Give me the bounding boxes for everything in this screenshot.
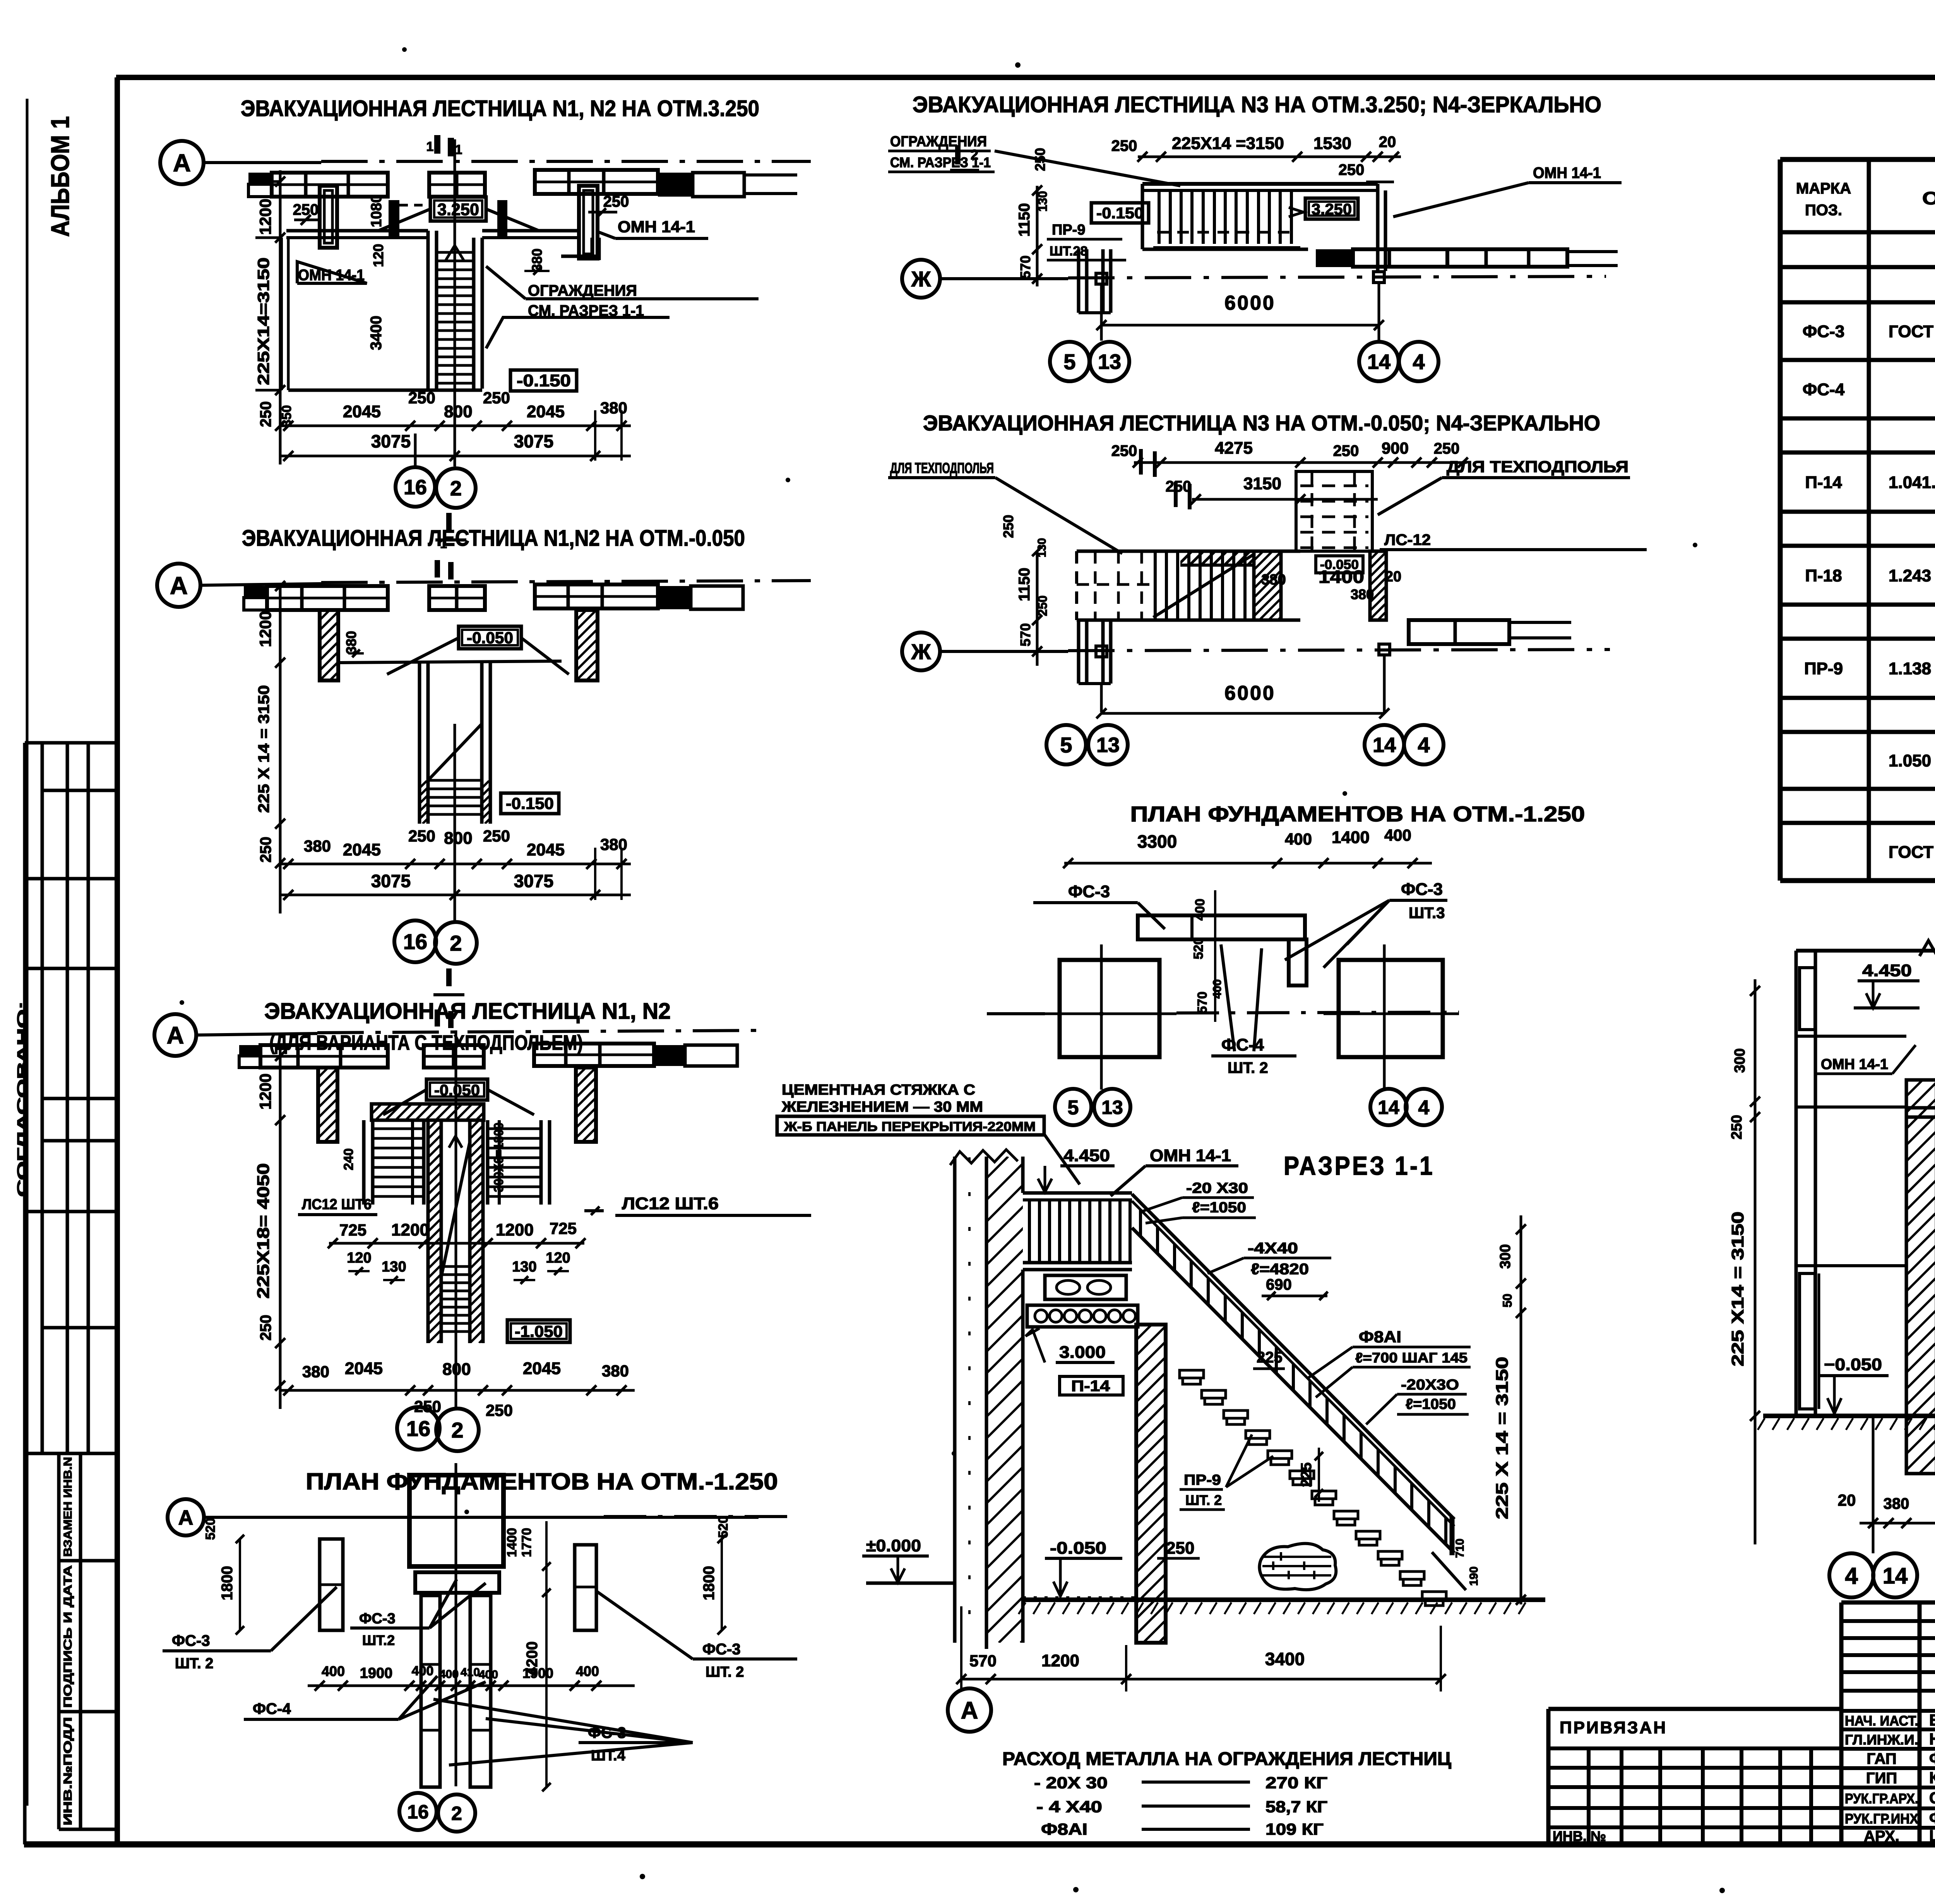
svg-text:-4X40: -4X40 (1248, 1240, 1298, 1257)
svg-text:1900: 1900 (360, 1665, 393, 1681)
svg-text:А: А (178, 1506, 193, 1529)
svg-text:120: 120 (546, 1250, 570, 1266)
svg-text:ПОДПИСЬ И ДАТА: ПОДПИСЬ И ДАТА (62, 1565, 74, 1708)
svg-text:ПОЗ.: ПОЗ. (1805, 202, 1842, 219)
svg-text:13: 13 (1098, 350, 1121, 374)
svg-text:ПР-9: ПР-9 (1804, 659, 1843, 678)
svg-text:20: 20 (1838, 1491, 1856, 1509)
svg-text:2045: 2045 (527, 840, 565, 859)
svg-text:725: 725 (339, 1221, 366, 1239)
svg-text:250: 250 (257, 837, 274, 863)
svg-text:16: 16 (407, 1801, 429, 1823)
svg-text:14: 14 (1378, 1097, 1399, 1118)
svg-text:ℓ=700 ШАГ 145: ℓ=700 ШАГ 145 (1355, 1350, 1468, 1366)
svg-text:1530: 1530 (1313, 134, 1351, 153)
svg-text:ГИП: ГИП (1866, 1770, 1897, 1787)
svg-text:2: 2 (450, 931, 462, 955)
svg-text:1.243 .1-4: 1.243 .1-4 (1889, 566, 1935, 585)
svg-text:ШТ.2: ШТ.2 (362, 1632, 395, 1648)
svg-text:225X14=3150: 225X14=3150 (254, 257, 272, 385)
svg-text:380: 380 (1884, 1495, 1909, 1512)
svg-text:А: А (173, 149, 191, 177)
svg-text:250: 250 (1032, 148, 1048, 171)
svg-text:130: 130 (1036, 191, 1050, 211)
svg-text:520: 520 (716, 1516, 731, 1538)
svg-text:400: 400 (1285, 830, 1312, 848)
svg-text:ОМН 14-1: ОМН 14-1 (1150, 1146, 1231, 1165)
svg-text:1900: 1900 (522, 1665, 553, 1681)
svg-text:1: 1 (426, 139, 434, 154)
svg-text:1800: 1800 (219, 1566, 236, 1601)
svg-text:1800: 1800 (700, 1566, 717, 1601)
svg-text:ЭВАКУАЦИОННАЯ ЛЕСТНИЦА N3 НА О: ЭВАКУАЦИОННАЯ ЛЕСТНИЦА N3 НА ОТМ.3.250; … (913, 92, 1601, 117)
svg-text:225 X14 = 3150: 225 X14 = 3150 (1728, 1212, 1747, 1366)
svg-text:1400: 1400 (1319, 567, 1364, 587)
svg-text:ℓ=1050: ℓ=1050 (1192, 1200, 1246, 1216)
svg-text:4.450: 4.450 (1862, 961, 1912, 980)
svg-text:250: 250 (257, 401, 274, 427)
svg-text:800: 800 (442, 1360, 471, 1379)
svg-text:300: 300 (1732, 1048, 1748, 1073)
svg-text:ШТ. 2: ШТ. 2 (175, 1656, 213, 1672)
svg-text:2045: 2045 (343, 840, 381, 859)
svg-text:400: 400 (576, 1663, 599, 1679)
svg-text:400: 400 (439, 1668, 459, 1681)
svg-text:-0.050: -0.050 (467, 629, 513, 647)
svg-text:190: 190 (1468, 1566, 1480, 1586)
svg-text:130: 130 (382, 1259, 406, 1275)
svg-text:20: 20 (1379, 134, 1396, 151)
svg-text:ОМН 14-1: ОМН 14-1 (1533, 165, 1601, 182)
svg-text:1150: 1150 (1016, 568, 1033, 602)
svg-text:16: 16 (404, 476, 427, 499)
svg-text:АЛЬБОМ 1: АЛЬБОМ 1 (46, 116, 74, 237)
svg-text:400: 400 (1384, 826, 1411, 844)
svg-text:130: 130 (512, 1259, 536, 1275)
svg-text:Ж: Ж (911, 267, 931, 291)
svg-text:НАЧ. ИАСТ.: НАЧ. ИАСТ. (1845, 1713, 1918, 1729)
svg-text:250: 250 (1036, 595, 1050, 616)
svg-text:4: 4 (1418, 733, 1430, 757)
svg-text:1: 1 (440, 537, 447, 551)
svg-text:ОГРАЖДЕНИЯ: ОГРАЖДЕНИЯ (528, 282, 637, 299)
svg-text:ШТ. 2: ШТ. 2 (706, 1664, 744, 1680)
svg-text:ОМН 14-1: ОМН 14-1 (618, 218, 695, 236)
svg-text:ФС-3: ФС-3 (1803, 322, 1844, 341)
svg-text:1080: 1080 (368, 195, 385, 228)
svg-text:РУК.ГР.АРХ.: РУК.ГР.АРХ. (1845, 1791, 1918, 1806)
svg-text:Ф8АI: Ф8АI (1359, 1328, 1401, 1346)
svg-text:ПР-9: ПР-9 (1184, 1472, 1221, 1488)
svg-text:ПЛАН ФУНДАМЕНТОВ НА ОТМ.-1.250: ПЛАН ФУНДАМЕНТОВ НА ОТМ.-1.250 (1130, 802, 1585, 826)
svg-text:4: 4 (1845, 1563, 1858, 1589)
svg-text:РАСХОД МЕТАЛЛА НА ОГРАЖДЕНИЯ Л: РАСХОД МЕТАЛЛА НА ОГРАЖДЕНИЯ ЛЕСТНИЦ (1002, 1749, 1451, 1769)
svg-text:5: 5 (1063, 350, 1075, 374)
svg-text:250: 250 (293, 201, 319, 218)
svg-text:400: 400 (412, 1664, 434, 1678)
svg-text:НАЗАРОВ: НАЗАРОВ (1929, 1730, 1935, 1748)
svg-text:ЭВАКУАЦИОННАЯ ЛЕСТНИЦА N1, N2: ЭВАКУАЦИОННАЯ ЛЕСТНИЦА N1, N2 (264, 999, 671, 1024)
svg-text:120: 120 (370, 244, 386, 267)
svg-text:520: 520 (203, 1518, 218, 1540)
svg-text:570: 570 (1017, 623, 1033, 646)
svg-text:380: 380 (529, 248, 545, 272)
svg-text:250: 250 (483, 389, 510, 407)
svg-text:225 X 14 = 3150: 225 X 14 = 3150 (1493, 1357, 1512, 1519)
svg-text:ФС-3: ФС-3 (359, 1611, 396, 1627)
svg-text:3.250: 3.250 (1312, 201, 1352, 218)
svg-text:6000: 6000 (1224, 292, 1276, 314)
svg-text:50: 50 (1500, 1294, 1514, 1308)
svg-text:20: 20 (1385, 569, 1401, 585)
svg-text:ЭВАКУАЦИОННАЯ ЛЕСТНИЦА N1, N2: ЭВАКУАЦИОННАЯ ЛЕСТНИЦА N1, N2 НА ОТМ.3.2… (241, 96, 759, 121)
svg-text:570: 570 (969, 1652, 997, 1670)
svg-text:-0.150: -0.150 (1096, 205, 1144, 222)
svg-text:РУК.ГР.ИНХ: РУК.ГР.ИНХ (1845, 1811, 1918, 1827)
svg-text:ШТ. 2: ШТ. 2 (1228, 1059, 1268, 1076)
svg-text:400: 400 (1193, 899, 1207, 921)
svg-text:ДЛЯ ТЕХПОДПОЛЬЯ: ДЛЯ ТЕХПОДПОЛЬЯ (890, 460, 994, 476)
svg-text:П-18: П-18 (1805, 566, 1842, 585)
svg-text:ШИШКОВА: ШИШКОВА (1929, 1827, 1935, 1845)
svg-text:П-14: П-14 (1805, 473, 1842, 492)
svg-text:250: 250 (257, 1315, 274, 1341)
svg-text:БАШЕНКОВ: БАШЕНКОВ (1929, 1711, 1935, 1729)
svg-text:5: 5 (1068, 1097, 1079, 1119)
svg-text:А: А (961, 1697, 978, 1724)
svg-text:2045: 2045 (527, 402, 565, 421)
svg-text:1.138 -10 ВЫП. 1: 1.138 -10 ВЫП. 1 (1889, 659, 1935, 678)
svg-text:900: 900 (1382, 439, 1409, 457)
svg-text:3075: 3075 (514, 431, 553, 451)
svg-text:3300: 3300 (1137, 831, 1177, 852)
svg-text:ФС-3: ФС-3 (172, 1632, 210, 1649)
svg-text:ШТ.3: ШТ.3 (1409, 905, 1445, 922)
svg-text:800: 800 (444, 402, 472, 421)
svg-text:380: 380 (602, 1362, 629, 1380)
svg-text:3075: 3075 (371, 431, 411, 451)
svg-text:МАРКА: МАРКА (1796, 180, 1851, 197)
svg-text:1150: 1150 (1016, 203, 1033, 237)
svg-text:250: 250 (1111, 442, 1137, 459)
svg-text:13: 13 (1096, 733, 1120, 757)
svg-text:250: 250 (1166, 1539, 1194, 1558)
svg-text:ФС-3: ФС-3 (1401, 880, 1443, 899)
svg-text:ЛС-12: ЛС-12 (1384, 531, 1431, 548)
svg-text:ЖЕЛЕЗНЕНИЕМ — 30 ММ: ЖЕЛЕЗНЕНИЕМ — 30 ММ (781, 1099, 983, 1115)
svg-text:225: 225 (1298, 1462, 1315, 1487)
svg-text:ОМН 14-1: ОМН 14-1 (298, 267, 365, 284)
svg-text:ШТ. 2: ШТ. 2 (1185, 1492, 1222, 1508)
svg-text:3075: 3075 (371, 871, 411, 891)
svg-text:400: 400 (479, 1668, 498, 1681)
svg-text:725: 725 (550, 1219, 577, 1237)
svg-text:250: 250 (486, 1401, 513, 1419)
svg-text:250: 250 (1166, 478, 1192, 495)
svg-text:58,7 КГ: 58,7 КГ (1265, 1798, 1327, 1816)
svg-text:250: 250 (1729, 1115, 1745, 1139)
svg-text:13: 13 (1101, 1097, 1123, 1118)
svg-text:1200: 1200 (391, 1220, 429, 1239)
svg-text:ОБОЗНАЧЕНИЕ: ОБОЗНАЧЕНИЕ (1922, 188, 1935, 208)
svg-text:240: 240 (341, 1148, 356, 1171)
svg-text:410: 410 (461, 1666, 480, 1679)
svg-text:ШТ.28: ШТ.28 (1050, 244, 1087, 259)
svg-text:П-14: П-14 (1071, 1378, 1110, 1395)
svg-text:6000: 6000 (1224, 682, 1276, 704)
svg-text:14: 14 (1883, 1563, 1908, 1589)
svg-text:4: 4 (1418, 1097, 1430, 1119)
svg-text:-20 X30: -20 X30 (1186, 1180, 1248, 1196)
svg-text:270 КГ: 270 КГ (1265, 1774, 1327, 1792)
svg-text:400: 400 (322, 1663, 345, 1679)
svg-text:АРХ.: АРХ. (1864, 1828, 1899, 1845)
svg-text:СОГЛАСОВАНО:: СОГЛАСОВАНО: (14, 1001, 30, 1197)
svg-text:3150: 3150 (1243, 474, 1281, 493)
svg-text:570: 570 (1017, 255, 1033, 279)
svg-text:4: 4 (1413, 350, 1425, 374)
svg-text:520: 520 (1191, 937, 1206, 960)
svg-text:3.250: 3.250 (437, 200, 479, 219)
svg-text:ГАП: ГАП (1867, 1750, 1896, 1767)
svg-text:1200: 1200 (256, 1073, 274, 1109)
svg-text:А: А (170, 572, 188, 600)
svg-text:380: 380 (1351, 586, 1374, 602)
svg-text:225: 225 (1257, 1349, 1283, 1366)
svg-text:14: 14 (1373, 733, 1396, 757)
svg-text:16: 16 (406, 1416, 430, 1441)
svg-text:2: 2 (451, 1803, 462, 1824)
svg-text:1200: 1200 (256, 611, 274, 647)
svg-text:225X18= 4050: 225X18= 4050 (254, 1163, 273, 1299)
svg-text:3400: 3400 (368, 316, 385, 350)
svg-text:ℓ=4820: ℓ=4820 (1251, 1261, 1309, 1278)
svg-text:ЭВАКУАЦИОННАЯ ЛЕСТНИЦА N3 НА О: ЭВАКУАЦИОННАЯ ЛЕСТНИЦА N3 НА ОТМ.-0.050;… (923, 411, 1600, 435)
svg-text:250: 250 (408, 827, 435, 845)
svg-text:250: 250 (1434, 440, 1460, 457)
svg-text:250: 250 (1111, 137, 1137, 154)
svg-text:ГЛ.ИНЖ.И.: ГЛ.ИНЖ.И. (1845, 1732, 1918, 1748)
svg-text:250: 250 (603, 193, 629, 210)
svg-text:ГОСТ 8717-81: ГОСТ 8717-81 (1889, 843, 1935, 862)
svg-text:109 КГ: 109 КГ (1265, 1820, 1324, 1838)
svg-text:ЛС12 ШТ.6: ЛС12 ШТ.6 (622, 1194, 719, 1213)
svg-text:ЭВАКУАЦИОННАЯ ЛЕСТНИЦА N1,N2 Н: ЭВАКУАЦИОННАЯ ЛЕСТНИЦА N1,N2 НА ОТМ.-0.0… (242, 526, 745, 551)
svg-text:570: 570 (1195, 992, 1210, 1014)
svg-text:СОКОЛОВА: СОКОЛОВА (1929, 1789, 1935, 1807)
svg-text:1.041.1-2 ВЫП. 1: 1.041.1-2 ВЫП. 1 (1889, 473, 1935, 492)
svg-text:16: 16 (403, 929, 427, 954)
svg-text:1400: 1400 (505, 1528, 519, 1557)
svg-text:−0.050: −0.050 (1824, 1355, 1882, 1374)
svg-text:2045: 2045 (343, 402, 381, 421)
svg-text:- 4 X40: - 4 X40 (1036, 1798, 1102, 1816)
svg-text:250: 250 (1000, 515, 1016, 538)
svg-text:130: 130 (1036, 538, 1048, 557)
svg-text:3400: 3400 (1265, 1649, 1305, 1669)
svg-text:ГОСТ 13579-78: ГОСТ 13579-78 (1889, 322, 1935, 341)
svg-text:ФС-4: ФС-4 (1221, 1035, 1264, 1054)
svg-text:ПР-9: ПР-9 (1052, 222, 1085, 238)
svg-text:250: 250 (408, 389, 435, 407)
svg-text:±0.000: ±0.000 (866, 1536, 921, 1555)
svg-text:ВЗАМЕН ИНВ.N: ВЗАМЕН ИНВ.N (62, 1457, 74, 1557)
svg-text:380: 380 (304, 837, 331, 855)
svg-text:ДЛЯ ТЕХПОДПОЛЬЯ: ДЛЯ ТЕХПОДПОЛЬЯ (1447, 458, 1628, 476)
svg-text:380: 380 (343, 631, 359, 654)
svg-text:300: 300 (1497, 1244, 1514, 1268)
svg-text:-0.050: -0.050 (1050, 1539, 1106, 1558)
svg-text:ИНВ. №: ИНВ. № (1553, 1828, 1606, 1844)
svg-text:400: 400 (1211, 979, 1224, 999)
svg-text:ЦЕМЕНТНАЯ СТЯЖКА С: ЦЕМЕНТНАЯ СТЯЖКА С (782, 1082, 975, 1098)
svg-text:2: 2 (450, 477, 462, 500)
svg-text:225 X 14 = 3150: 225 X 14 = 3150 (255, 685, 272, 813)
svg-text:-0.150: -0.150 (517, 371, 571, 390)
svg-text:225X14 =3150: 225X14 =3150 (1172, 134, 1284, 153)
svg-text:14: 14 (1367, 350, 1390, 374)
svg-text:690: 690 (1266, 1276, 1292, 1293)
svg-text:-1.050: -1.050 (515, 1322, 563, 1340)
svg-text:ФС-4: ФС-4 (253, 1700, 291, 1717)
svg-text:380: 380 (1261, 572, 1286, 588)
svg-text:1200: 1200 (256, 199, 274, 235)
svg-text:1770: 1770 (519, 1528, 534, 1557)
svg-text:1400: 1400 (1332, 828, 1370, 847)
svg-text:ФС-3: ФС-3 (1068, 882, 1110, 901)
svg-text:- 20X 30: - 20X 30 (1034, 1774, 1108, 1792)
svg-text:250: 250 (1339, 161, 1365, 178)
svg-text:2: 2 (971, 147, 978, 163)
svg-text:1200: 1200 (1041, 1651, 1079, 1670)
svg-text:380: 380 (600, 835, 627, 853)
svg-text:ПЛАН ФУНДАМЕНТОВ НА ОТМ.-1.250: ПЛАН ФУНДАМЕНТОВ НА ОТМ.-1.250 (306, 1469, 778, 1494)
svg-text:ОМН 14-1: ОМН 14-1 (1821, 1056, 1888, 1073)
svg-text:1.050 1-2 ВЫП. 2: 1.050 1-2 ВЫП. 2 (1889, 751, 1935, 770)
svg-text:380: 380 (600, 399, 627, 417)
svg-text:250: 250 (483, 827, 510, 845)
svg-text:РАЗРЕЗ 1-1: РАЗРЕЗ 1-1 (1284, 1151, 1435, 1181)
svg-text:5: 5 (1060, 733, 1072, 757)
svg-text:4275: 4275 (1215, 439, 1253, 458)
svg-text:3075: 3075 (514, 871, 553, 891)
svg-text:710: 710 (1454, 1539, 1466, 1558)
svg-text:Ж: Ж (911, 639, 931, 664)
svg-text:ЛС12 ШТ6: ЛС12 ШТ6 (302, 1196, 372, 1213)
svg-text:ФС-3: ФС-3 (702, 1641, 741, 1658)
svg-text:350: 350 (279, 405, 294, 427)
svg-text:250: 250 (1333, 442, 1359, 459)
svg-text:ИНВ.№ПОДЛ: ИНВ.№ПОДЛ (62, 1717, 74, 1825)
svg-text:ФРЕЙМАН: ФРЕЙМАН (1929, 1808, 1935, 1827)
svg-text:1200: 1200 (496, 1220, 534, 1239)
svg-text:800: 800 (444, 829, 472, 848)
svg-text:Ф8АI: Ф8АI (1041, 1820, 1087, 1838)
svg-text:300X6=1800: 300X6=1800 (491, 1123, 506, 1192)
svg-text:-20X3O: -20X3O (1401, 1377, 1459, 1393)
svg-text:2045: 2045 (523, 1359, 561, 1378)
svg-text:ФИЛИППОВ: ФИЛИППОВ (1929, 1749, 1935, 1767)
svg-text:2045: 2045 (345, 1359, 383, 1378)
svg-text:КИРЮШКИН: КИРЮШКИН (1929, 1769, 1935, 1787)
svg-text:ФС-4: ФС-4 (1803, 380, 1845, 399)
svg-text:3.000: 3.000 (1059, 1343, 1106, 1362)
svg-text:ПРИВЯЗАН: ПРИВЯЗАН (1560, 1718, 1667, 1737)
svg-text:-0.150: -0.150 (506, 794, 554, 812)
svg-text:380: 380 (302, 1362, 329, 1381)
svg-text:4.450: 4.450 (1063, 1146, 1110, 1165)
svg-text:2: 2 (451, 1418, 463, 1442)
svg-text:А: А (167, 1022, 184, 1049)
svg-text:ℓ=1050: ℓ=1050 (1406, 1396, 1456, 1412)
svg-text:Ж-Б ПАНЕЛЬ ПЕРЕКРЫТИЯ-220ММ: Ж-Б ПАНЕЛЬ ПЕРЕКРЫТИЯ-220ММ (784, 1119, 1036, 1134)
svg-text:120: 120 (347, 1250, 371, 1266)
